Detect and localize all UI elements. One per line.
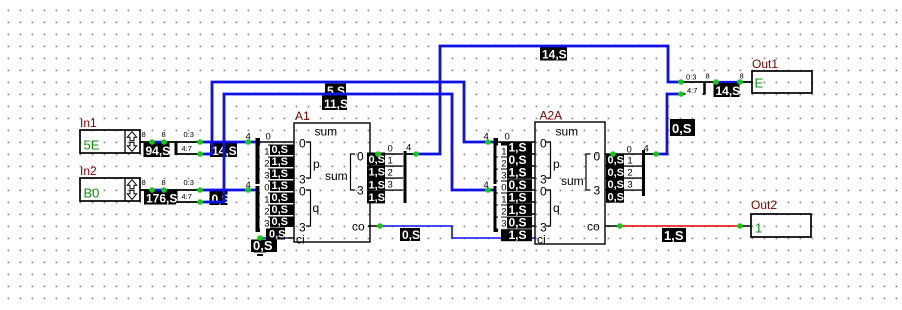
svg-text:sum: sum [556,125,579,139]
svg-text:co: co [352,220,365,234]
svg-text:0: 0 [627,145,632,156]
svg-text:1,S: 1,S [509,228,527,242]
svg-text:0,S: 0,S [608,179,625,191]
svg-text:8: 8 [162,130,166,139]
svg-text:176,S: 176,S [146,191,177,205]
svg-text:4:7: 4:7 [182,144,192,153]
svg-text:0: 0 [501,183,506,194]
svg-text:1,S: 1,S [272,180,289,192]
svg-text:4:7: 4:7 [182,192,192,201]
svg-text:2: 2 [501,207,506,218]
svg-text:8: 8 [740,72,744,81]
svg-text:2: 2 [388,167,393,178]
svg-text:3: 3 [388,179,393,190]
svg-text:1,S: 1,S [664,228,684,243]
svg-text:2: 2 [501,159,506,170]
svg-text:0,S: 0,S [272,216,289,228]
svg-text:q: q [553,201,560,215]
svg-text:0:3: 0:3 [686,73,696,82]
svg-text:co: co [587,220,600,234]
svg-text:3: 3 [264,171,269,182]
svg-text:B0: B0 [84,186,100,201]
svg-text:0: 0 [266,132,271,143]
svg-text:sum: sum [315,125,338,139]
svg-text:p: p [313,157,320,171]
svg-text:2: 2 [627,167,632,178]
svg-text:0,S: 0,S [608,167,625,179]
svg-text:0: 0 [594,150,601,164]
svg-text:2: 2 [264,159,269,170]
svg-text:1: 1 [501,195,506,206]
svg-text:0,S: 0,S [212,192,230,206]
svg-text:3: 3 [501,219,506,230]
svg-text:sum: sum [561,174,584,188]
svg-text:0: 0 [540,185,547,199]
svg-text:1,S: 1,S [369,167,386,179]
svg-text:8: 8 [706,72,710,81]
svg-text:A2A: A2A [540,109,563,123]
svg-text:ci: ci [296,233,305,247]
svg-text:1: 1 [755,221,762,236]
svg-text:14,S: 14,S [542,47,567,61]
svg-text:0: 0 [505,132,510,143]
svg-text:3: 3 [501,171,506,182]
svg-text:1: 1 [264,147,269,158]
svg-text:0,S: 0,S [608,192,625,204]
svg-text:0: 0 [357,150,364,164]
svg-text:8: 8 [162,178,166,187]
svg-text:1: 1 [388,155,393,166]
svg-text:E: E [755,76,764,91]
svg-text:ci: ci [537,233,546,247]
svg-text:0: 0 [299,137,306,151]
svg-text:A1: A1 [295,109,310,123]
svg-text:1: 1 [501,147,506,158]
svg-text:0,S: 0,S [402,228,420,242]
svg-text:4: 4 [644,144,649,155]
svg-text:4:7: 4:7 [687,86,697,95]
svg-text:0,S: 0,S [272,144,289,156]
svg-text:1,S: 1,S [369,179,386,191]
svg-text:sum: sum [325,169,348,183]
svg-text:p: p [553,157,560,171]
svg-text:0: 0 [540,137,547,151]
svg-text:3: 3 [594,184,601,198]
svg-text:Out2: Out2 [751,198,777,212]
svg-text:4: 4 [406,143,411,154]
svg-text:8: 8 [142,130,146,139]
svg-text:0:3: 0:3 [184,130,194,139]
svg-text:0: 0 [264,183,269,194]
svg-text:1,S: 1,S [369,192,386,204]
svg-text:14,S: 14,S [716,84,741,98]
svg-text:Out1: Out1 [752,57,778,71]
svg-text:2: 2 [264,207,269,218]
svg-text:5E: 5E [84,138,100,153]
svg-text:8: 8 [142,178,146,187]
svg-text:In2: In2 [80,164,97,178]
svg-text:q: q [313,201,320,215]
svg-text:3: 3 [357,184,364,198]
svg-text:0: 0 [299,185,306,199]
svg-text:3: 3 [264,219,269,230]
svg-text:0,S: 0,S [608,155,625,167]
svg-text:0:3: 0:3 [184,178,194,187]
svg-text:0: 0 [388,144,393,155]
svg-text:1,S: 1,S [272,156,289,168]
svg-text:3: 3 [627,179,632,190]
svg-text:94,S: 94,S [146,144,171,158]
svg-text:0,S: 0,S [672,121,692,136]
svg-text:0,S: 0,S [272,204,289,216]
svg-text:0,S: 0,S [253,238,273,253]
svg-text:In1: In1 [80,116,97,130]
svg-text:1: 1 [627,155,632,166]
svg-text:0,S: 0,S [272,192,289,204]
svg-text:11,S: 11,S [324,97,348,111]
svg-text:1: 1 [264,195,269,206]
svg-text:1,S: 1,S [272,168,289,180]
